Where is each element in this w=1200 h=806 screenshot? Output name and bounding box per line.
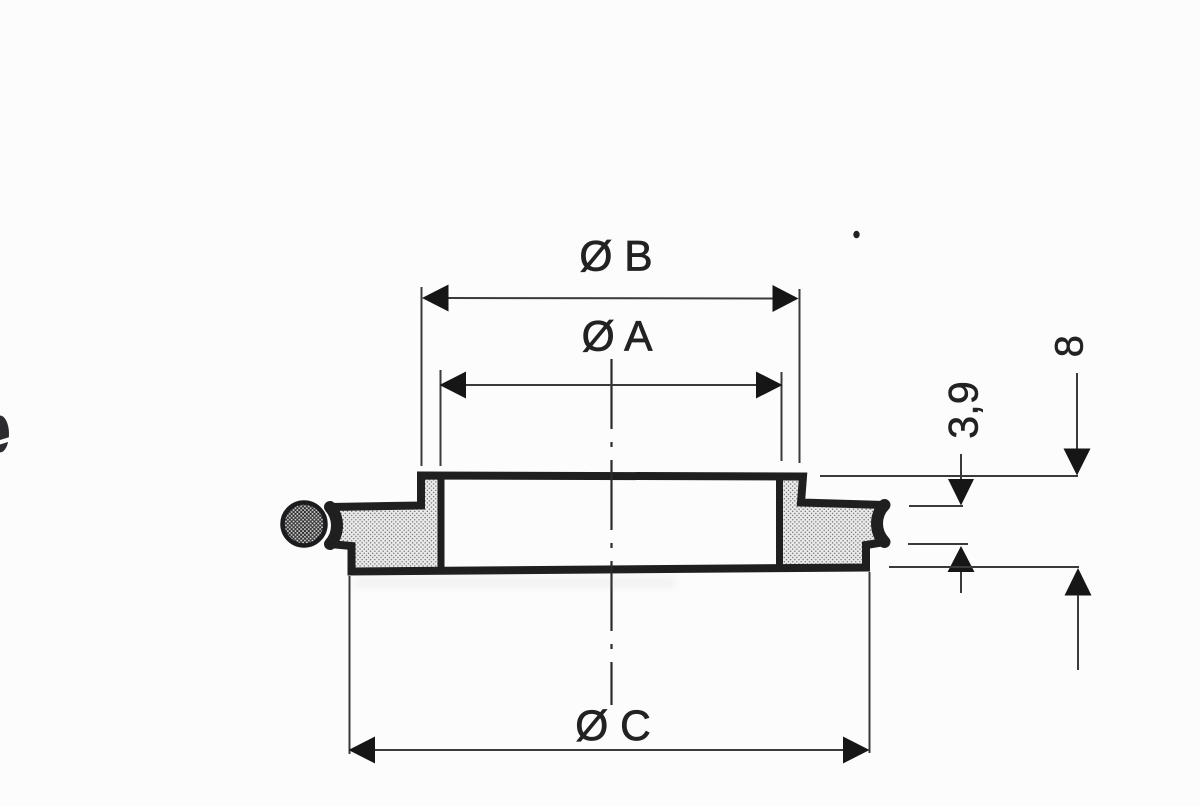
dimension OA extension line left [440,370,442,466]
svg-text:Ø B: Ø B [579,234,652,281]
dimension OB extension line right [799,289,801,463]
dimension OA extension line right [781,372,783,461]
dimension 8 upper arrow [1064,449,1091,476]
rim-top reference line (8 upper) [820,475,1078,477]
dimension OC arrow right [843,737,870,764]
left flange stipple fill [330,477,441,569]
dimension OC line [374,749,844,751]
svg-text:Ø A: Ø A [582,314,654,361]
dimension OA arrow right [756,372,783,399]
dimension 8 lower leader [1077,595,1079,670]
svg-text:Ø C: Ø C [575,703,651,750]
svg-text:8: 8 [1048,335,1092,357]
dimension OC extension line left [349,576,351,754]
dimension 8 lower arrow [1065,568,1092,596]
dimension OA arrow left [440,372,467,399]
right groove arc heavy ink [877,505,884,542]
right insert inner wall [776,478,783,565]
dimension OC extension line right [869,572,871,753]
centerline axis [610,359,612,705]
dimension 3,9 upper leader [960,454,962,481]
dimension OB arrow right [773,285,799,312]
seal body outline [330,476,885,572]
bottom reference line (8 lower) [889,566,1079,568]
o-ring cross-section [283,503,326,546]
scan artifact: ink speck [853,231,859,239]
dimension 8 upper leader [1076,373,1078,450]
dimension OB arrow left [422,285,449,312]
dimension OB line [448,297,773,300]
dimension OB extension line left [421,287,423,466]
scan artifact: smudge under part [355,577,675,588]
dimension 3,9 upper arrow [948,479,974,506]
scan artifact: punch-hole mark at left edge [0,416,9,453]
left groove arc heavy ink [330,507,337,544]
flange-top reference line (3,9 upper) [909,505,963,507]
lip reference line (3,9 lower) [908,543,968,545]
dimension 3,9 lower leader [960,572,962,593]
dimension 3,9 lower arrow [948,546,975,572]
dimension OC arrow left [349,737,376,764]
dimension OA line [465,384,757,386]
left insert inner wall [438,478,445,567]
svg-text:3,9: 3,9 [940,381,987,439]
right flange stipple fill [780,477,885,568]
